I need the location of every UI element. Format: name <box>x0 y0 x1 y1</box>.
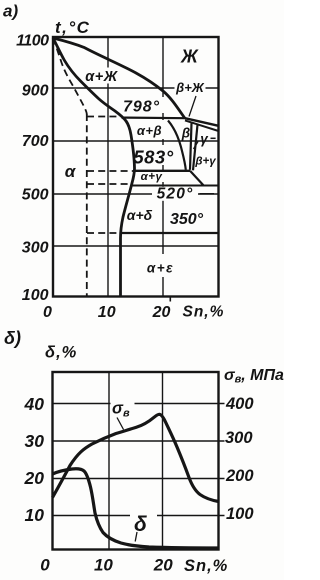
alpha solidus-solvus curve <box>53 38 135 296</box>
svg-text:а): а) <box>3 2 18 21</box>
svg-text:400: 400 <box>225 395 254 413</box>
beta right boundary <box>190 123 192 170</box>
svg-text:40: 40 <box>24 394 45 414</box>
svg-text:δ: δ <box>134 513 147 536</box>
grid 700 <box>53 140 219 142</box>
svg-text:500: 500 <box>22 187 49 204</box>
grid 10% lower <box>108 372 110 550</box>
svg-text:798°: 798° <box>123 99 160 116</box>
svg-text:α: α <box>65 162 77 181</box>
583 isotherm <box>134 170 190 172</box>
dashed 798 extension <box>87 116 117 118</box>
svg-text:30: 30 <box>25 431 45 451</box>
liquidus <box>53 38 185 119</box>
dashed 583 extension <box>87 170 133 172</box>
svg-text:100: 100 <box>22 287 49 304</box>
grid 30/300 <box>53 440 225 442</box>
upper chart texts <box>3 2 224 322</box>
tick below axis <box>169 297 171 302</box>
520 leader dash <box>200 193 215 195</box>
lower chart texts <box>4 328 284 575</box>
svg-text:10: 10 <box>98 304 116 321</box>
gamma boundary below 583 <box>190 171 204 186</box>
svg-text:β+Ж: β+Ж <box>175 80 205 95</box>
mask under 798 label <box>124 97 165 113</box>
beta+Zh leader <box>189 96 196 117</box>
sigma_v leader <box>117 418 124 430</box>
svg-text:δ): δ) <box>4 328 21 348</box>
svg-text:Sn,%: Sn,% <box>184 557 228 575</box>
svg-text:α+δ: α+δ <box>127 207 153 223</box>
svg-text:Sn,%: Sn,% <box>183 304 225 321</box>
dashed vertical solubility line <box>86 114 88 296</box>
svg-text:300: 300 <box>22 240 49 257</box>
svg-text:1100: 1100 <box>16 33 49 50</box>
mask under 583 label <box>126 145 180 165</box>
svg-text:20: 20 <box>24 468 45 488</box>
grid 20% lower <box>162 372 164 550</box>
svg-text:583°: 583° <box>133 147 173 168</box>
grid 500 <box>53 193 219 195</box>
gamma leader <box>194 142 199 150</box>
upper chart frame <box>53 37 219 297</box>
mask under delta curve label <box>130 511 157 537</box>
svg-text:α+β: α+β <box>137 123 162 138</box>
lower chart <box>53 372 225 550</box>
beta left boundary <box>168 121 186 170</box>
svg-text:200: 200 <box>225 467 254 485</box>
350 isotherm <box>121 232 219 234</box>
svg-text:α+ε: α+ε <box>147 261 174 276</box>
798 isotherm solid <box>122 116 186 119</box>
svg-text:100: 100 <box>226 505 254 523</box>
mask under alpha+beta label <box>135 120 167 139</box>
grid 900 <box>53 87 219 89</box>
svg-text:700: 700 <box>22 133 49 150</box>
mask under alpha+Zh label <box>84 68 121 84</box>
grid 10% <box>107 37 109 297</box>
svg-text:520°: 520° <box>157 186 194 203</box>
grid 20% <box>162 37 164 297</box>
grid 20/200 <box>53 478 225 480</box>
svg-text:t,°C: t,°C <box>55 18 90 37</box>
sigma_v curve <box>53 414 219 501</box>
beta upper boundary <box>185 120 219 131</box>
svg-text:300: 300 <box>225 429 253 447</box>
svg-text:β: β <box>181 126 190 141</box>
520 isotherm <box>132 185 219 187</box>
svg-text:0: 0 <box>43 304 52 321</box>
grid 10/100 <box>53 515 225 517</box>
label masks lower <box>111 400 158 537</box>
dashed alpha limit diagonal <box>53 38 87 115</box>
grid 40/400 <box>53 403 225 405</box>
gamma strip right boundary <box>193 125 198 171</box>
liquidus extension to right edge <box>185 118 219 126</box>
svg-text:20: 20 <box>152 304 171 321</box>
lower frame <box>53 372 219 550</box>
mask under beta+Zh label <box>175 82 206 94</box>
grid 300 <box>53 245 219 247</box>
mask under alpha+gamma label <box>137 172 167 182</box>
svg-text:Ж: Ж <box>180 47 199 67</box>
dashed 350 extension <box>87 232 120 234</box>
svg-text:α+γ: α+γ <box>141 171 163 183</box>
label masks upper <box>84 68 206 278</box>
svg-text:α+Ж: α+Ж <box>85 69 118 85</box>
svg-text:β+γ: β+γ <box>194 156 216 168</box>
mask under alpha+epsilon label <box>147 254 174 277</box>
delta leader <box>135 532 137 542</box>
svg-text:20: 20 <box>153 556 173 575</box>
svg-text:σв, МПа: σв, МПа <box>224 367 284 386</box>
svg-text:0: 0 <box>40 556 50 575</box>
svg-text:900: 900 <box>22 83 49 100</box>
dashed 520 extension <box>87 183 131 185</box>
svg-text:350°: 350° <box>170 211 204 228</box>
mask under sigma_v curve label <box>111 400 135 418</box>
mask under 520 label <box>152 187 198 201</box>
gamma dash <box>211 137 216 139</box>
svg-text:10: 10 <box>94 556 113 575</box>
svg-text:δ,%: δ,% <box>45 344 77 362</box>
svg-text:10: 10 <box>25 505 45 525</box>
delta curve <box>53 469 219 548</box>
